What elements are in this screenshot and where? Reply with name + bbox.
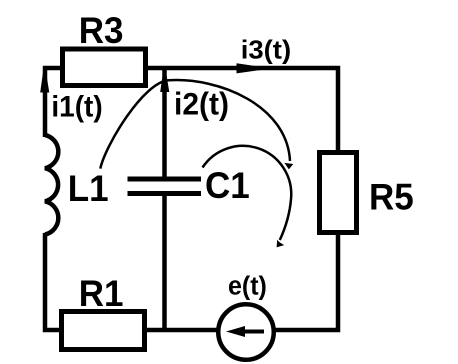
svg-text:e(t): e(t) — [228, 272, 267, 301]
svg-text:i2(t): i2(t) — [174, 86, 229, 122]
svg-text:R1: R1 — [79, 272, 124, 314]
svg-text:i1(t): i1(t) — [51, 91, 102, 124]
svg-text:R3: R3 — [79, 9, 124, 51]
svg-text:C1: C1 — [205, 164, 250, 206]
svg-text:L1: L1 — [68, 167, 109, 209]
svg-text:R5: R5 — [369, 176, 414, 218]
svg-text:i3(t): i3(t) — [241, 36, 291, 65]
